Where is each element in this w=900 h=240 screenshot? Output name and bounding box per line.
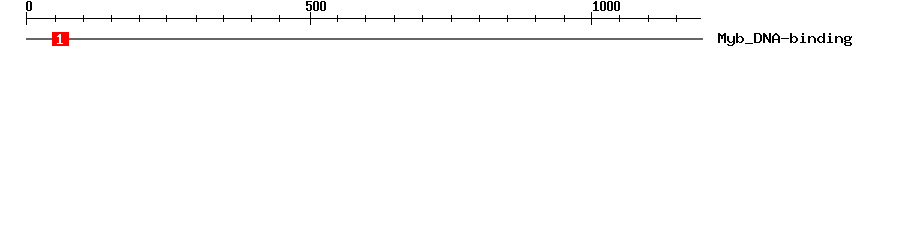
ruler label 500 xyxy=(306,1,326,11)
major tick 0 xyxy=(26,12,27,25)
ruler label 1000 xyxy=(593,1,620,11)
sequence line xyxy=(26,38,703,39)
minor ticks every 50 residues xyxy=(55,15,677,22)
ruler line xyxy=(26,18,701,19)
major tick 1000 xyxy=(591,12,592,25)
major tick 500 xyxy=(310,12,311,25)
domain box 1 (red) xyxy=(52,32,69,46)
domain hit number 1 (white) xyxy=(57,34,63,44)
ruler label 0 xyxy=(26,1,32,11)
domain name label Myb_DNA-binding xyxy=(718,33,852,46)
